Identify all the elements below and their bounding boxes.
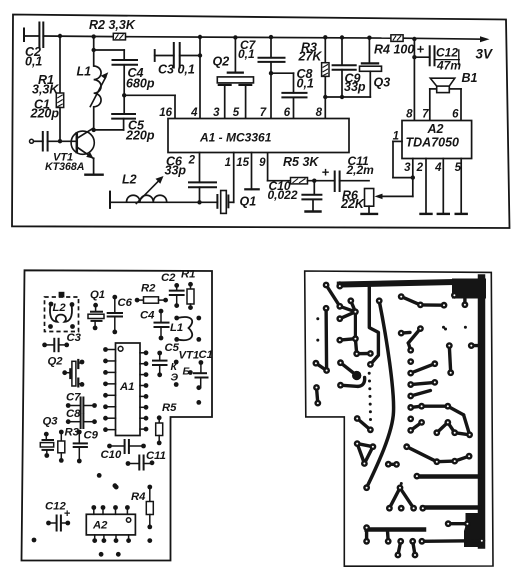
svg-text:9: 9: [259, 157, 266, 169]
svg-text:C7: C7: [66, 392, 81, 404]
svg-text:C3: C3: [67, 332, 82, 344]
svg-text:B1: B1: [462, 71, 478, 85]
svg-text:1: 1: [225, 157, 231, 169]
svg-text:A2: A2: [92, 520, 108, 532]
svg-text:4: 4: [434, 162, 442, 174]
svg-text:R4: R4: [131, 491, 146, 503]
svg-text:33p: 33p: [165, 164, 187, 178]
svg-text:7: 7: [422, 109, 429, 121]
svg-text:47m: 47m: [436, 59, 461, 73]
svg-text:R5: R5: [162, 402, 177, 414]
svg-text:TDA7050: TDA7050: [406, 136, 460, 150]
svg-text:4: 4: [190, 107, 198, 119]
svg-text:5: 5: [233, 107, 240, 119]
svg-text:C2: C2: [161, 272, 176, 284]
svg-text:0,1: 0,1: [297, 77, 314, 91]
svg-text:8: 8: [406, 109, 413, 121]
svg-text:3: 3: [213, 107, 220, 119]
svg-text:R1: R1: [181, 269, 195, 281]
svg-text:C8: C8: [66, 408, 81, 420]
svg-text:2: 2: [416, 162, 424, 174]
svg-text:C9: C9: [84, 430, 99, 442]
svg-text:33p: 33p: [344, 80, 366, 94]
svg-text:0,1: 0,1: [238, 47, 255, 61]
svg-text:Э: Э: [171, 372, 179, 384]
svg-text:22K: 22K: [340, 197, 365, 211]
svg-text:R5 3K: R5 3K: [283, 155, 319, 169]
svg-text:+: +: [417, 42, 425, 57]
svg-text:C12: C12: [436, 46, 458, 60]
svg-text:L1: L1: [170, 322, 183, 334]
svg-text:3: 3: [404, 162, 411, 174]
svg-text:16: 16: [159, 107, 172, 119]
svg-text:A1: A1: [119, 381, 134, 393]
svg-text:6: 6: [452, 109, 459, 121]
svg-text:3V: 3V: [476, 47, 494, 62]
svg-text:Q2: Q2: [213, 55, 230, 69]
svg-text:220p: 220p: [30, 107, 60, 121]
svg-text:R2 3,3K: R2 3,3K: [89, 18, 136, 32]
svg-text:VT1: VT1: [179, 350, 200, 362]
svg-text:C10: C10: [101, 449, 122, 461]
svg-text:8: 8: [316, 107, 323, 119]
svg-text:Q3: Q3: [374, 76, 391, 90]
svg-text:C5: C5: [165, 342, 180, 354]
svg-text:Q2: Q2: [48, 356, 64, 368]
svg-text:R2: R2: [141, 283, 156, 295]
svg-text:0,022: 0,022: [268, 188, 298, 202]
svg-text:15: 15: [236, 157, 249, 169]
svg-text:L2: L2: [122, 173, 137, 187]
svg-text:KT368A: KT368A: [45, 161, 84, 173]
svg-text:Q1: Q1: [90, 289, 105, 301]
svg-text:A2: A2: [427, 122, 444, 136]
svg-text:Q1: Q1: [240, 195, 257, 209]
svg-text:C4: C4: [140, 310, 155, 322]
svg-text:L2: L2: [53, 302, 67, 314]
svg-text:2: 2: [188, 155, 196, 167]
svg-text:220p: 220p: [125, 129, 155, 143]
svg-text:7: 7: [260, 107, 267, 119]
svg-text:0,1: 0,1: [25, 55, 42, 69]
svg-text:C3 0,1: C3 0,1: [158, 63, 195, 77]
svg-text:2,2m: 2,2m: [346, 163, 375, 177]
svg-text:3,3K: 3,3K: [32, 83, 59, 97]
svg-text:L1: L1: [77, 65, 92, 79]
svg-text:C6: C6: [118, 297, 133, 309]
svg-text:R4 100: R4 100: [374, 43, 414, 57]
svg-text:27K: 27K: [298, 50, 323, 64]
svg-text:+: +: [64, 508, 71, 520]
svg-text:Q3: Q3: [43, 416, 59, 428]
svg-text:+: +: [322, 165, 330, 180]
svg-text:A1 - MC3361: A1 - MC3361: [199, 131, 272, 145]
svg-text:C11: C11: [146, 450, 166, 462]
svg-text:6: 6: [284, 107, 291, 119]
svg-text:C1: C1: [199, 349, 213, 361]
svg-text:680p: 680p: [126, 77, 155, 91]
